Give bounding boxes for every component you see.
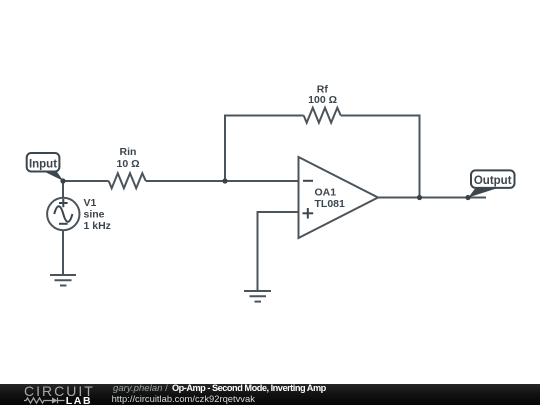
svg-text:V1: V1 (84, 197, 97, 209)
svg-text:http://circuitlab.com/czk92rqe: http://circuitlab.com/czk92rqetvvak (112, 393, 256, 404)
svg-text:Rin: Rin (120, 146, 137, 158)
svg-text:Input: Input (29, 159, 57, 171)
svg-text:TL081: TL081 (315, 198, 346, 210)
svg-text:1 kHz: 1 kHz (84, 220, 111, 232)
svg-text:Output: Output (474, 175, 512, 187)
svg-text:sine: sine (84, 209, 105, 221)
svg-text:10 Ω: 10 Ω (116, 158, 139, 170)
svg-text:LAB: LAB (66, 395, 92, 405)
svg-text:OA1: OA1 (315, 186, 337, 198)
svg-text:100 Ω: 100 Ω (308, 94, 337, 106)
